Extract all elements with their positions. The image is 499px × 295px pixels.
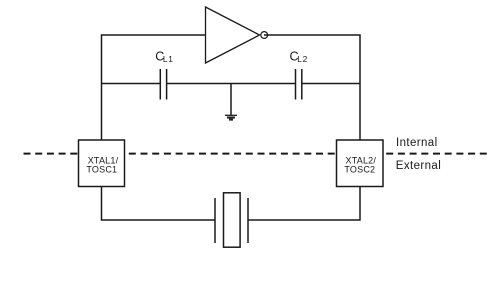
wire: inverter output to right vertical down to XTAL2 box top — [264, 35, 360, 140]
XTAL1/TOSC1 pin box — [79, 140, 125, 187]
internal/external boundary (dashed line) — [24, 153, 488, 155]
wire: left vertical to capacitor CL1 left plate — [102, 83, 161, 85]
wire: ground stub — [230, 84, 232, 116]
wire: crystal right plate across and up to XTAL2 box bottom — [248, 187, 360, 221]
crystal — [215, 193, 248, 247]
svg-text:External: External — [396, 160, 441, 172]
svg-text:CL1: CL1 — [155, 50, 173, 65]
svg-text:CL2: CL2 — [290, 50, 308, 65]
wire: XTAL1 box bottom down and across to crystal left plate — [102, 187, 216, 221]
inverter output bubble — [261, 32, 268, 39]
inverter (oscillator amplifier) triangle — [206, 7, 260, 63]
svg-text:TOSC1: TOSC1 — [86, 165, 117, 175]
wire: capacitor CL1 right plate to capacitor CL2 left plate — [167, 83, 296, 85]
wire: capacitor CL2 right plate to right vertical — [302, 83, 360, 85]
svg-text:Internal: Internal — [396, 137, 438, 149]
XTAL2/TOSC2 pin box — [337, 140, 384, 187]
capacitor CL2 — [296, 69, 302, 100]
svg-text:TOSC2: TOSC2 — [344, 165, 375, 175]
capacitor CL1 — [160, 69, 166, 100]
wire: XTAL1 box top up and across to inverter input — [102, 35, 206, 140]
ground — [225, 115, 237, 119]
